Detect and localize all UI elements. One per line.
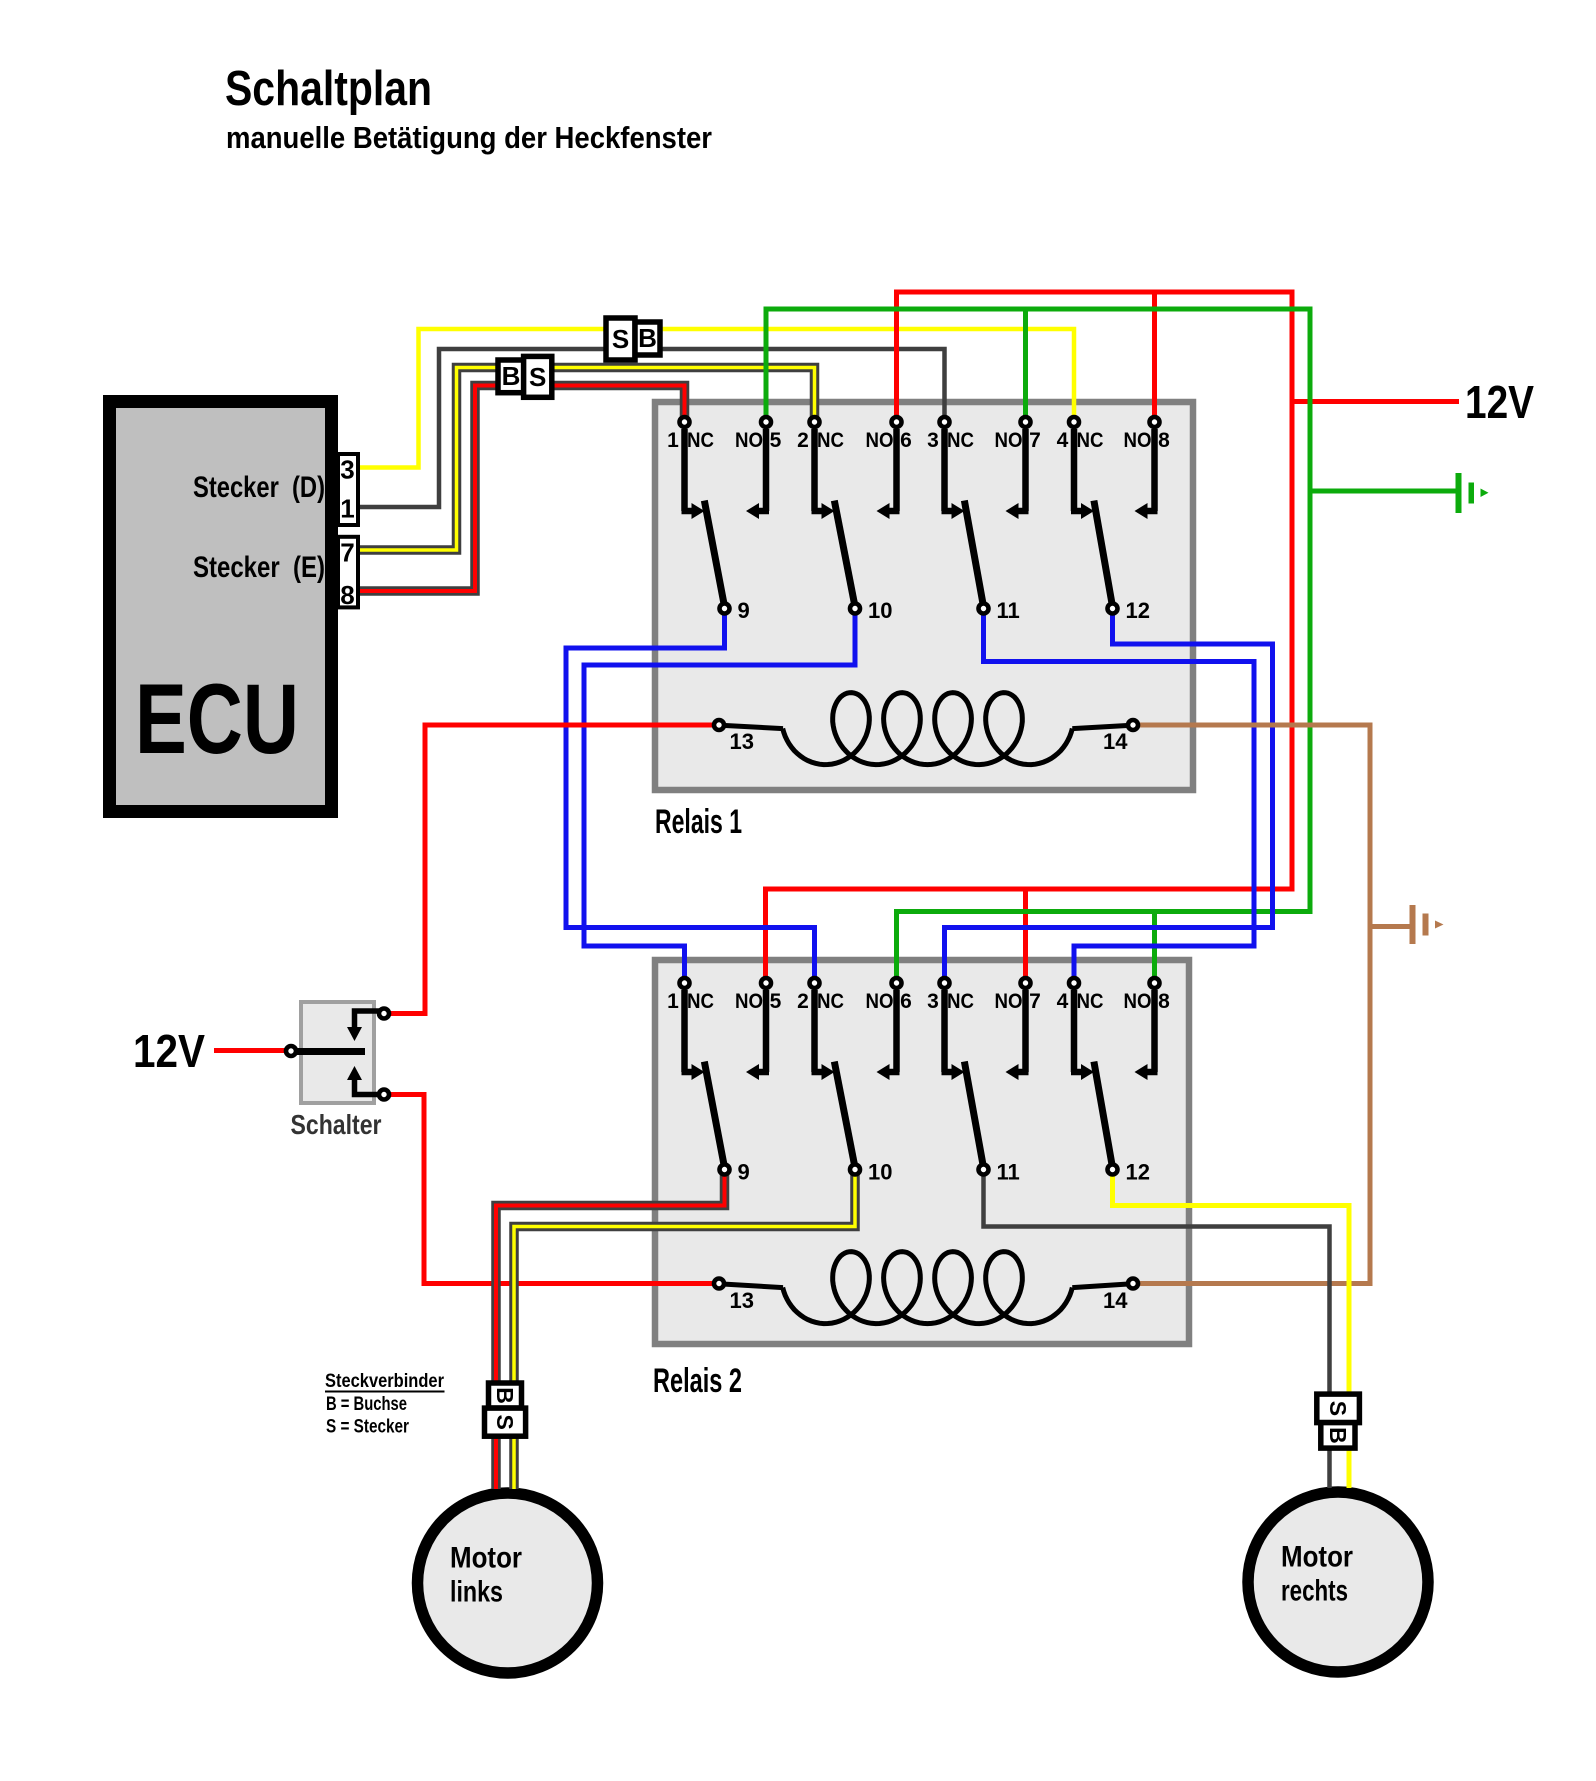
connector B (on ECU pin7/8 wires)	[498, 360, 525, 393]
wire green stub to ground	[1310, 489, 1456, 494]
node K2 pin 1	[680, 978, 690, 988]
relay K2 contact pole 1: NO throw	[763, 990, 770, 1072]
ECU connector E pins 7/8	[338, 537, 358, 608]
svg-text:B = Buchse: B = Buchse	[326, 1394, 407, 1415]
relay K2 contact pole 3: NC throw	[941, 990, 948, 1072]
svg-text:Schaltplan: Schaltplan	[225, 62, 432, 116]
svg-text:NO: NO	[995, 990, 1023, 1013]
motor M2 (rechts) body	[1248, 1492, 1428, 1672]
svg-text:8: 8	[1158, 990, 1170, 1013]
svg-text:1: 1	[667, 990, 679, 1013]
svg-text:manuelle Betätigung der Heckfe: manuelle Betätigung der Heckfenster	[226, 120, 712, 155]
node switch common pin	[286, 1046, 296, 1056]
wire green drop K2 NO8	[1152, 912, 1157, 984]
svg-text:9: 9	[738, 598, 750, 623]
node K2 pin 11	[979, 1165, 989, 1175]
svg-text:NC: NC	[947, 429, 974, 452]
svg-text:9: 9	[738, 1160, 750, 1185]
node K2 pin 13	[714, 1279, 724, 1289]
svg-text:NC: NC	[947, 990, 974, 1013]
svg-text:3: 3	[927, 429, 939, 452]
svg-text:NO: NO	[866, 990, 894, 1013]
svg-text:Schalter: Schalter	[291, 1109, 382, 1140]
relay K2 armature pole 4	[1095, 1065, 1113, 1168]
svg-text:13: 13	[730, 729, 754, 754]
svg-text:NO: NO	[1124, 990, 1152, 1013]
svg-text:ECU: ECU	[135, 663, 299, 774]
node K2 pin 7 (NO)	[1021, 978, 1031, 988]
wire red drop K1 NO8	[1152, 292, 1157, 422]
wire red switch top to K1 pin13	[389, 725, 716, 1014]
wire gray ECU pin1 to K1 pin3	[358, 349, 945, 507]
wire blue K1 pin11 to K2 pin4	[984, 609, 1255, 984]
node K1 pin 1	[680, 417, 690, 427]
svg-text:12: 12	[1126, 1160, 1150, 1185]
relay K2 coil L2	[714, 1284, 783, 1288]
svg-text:6: 6	[900, 990, 912, 1013]
node K2 pin 6 (NO)	[892, 978, 902, 988]
svg-text:NC: NC	[1077, 990, 1104, 1013]
ECU U1	[110, 402, 332, 812]
svg-text:10: 10	[868, 1160, 892, 1185]
ground (green, chassis)	[1456, 473, 1462, 513]
svg-text:links: links	[450, 1576, 503, 1609]
relay K1 armature pole 1	[705, 504, 725, 607]
relay K1 armature pole 4	[1095, 504, 1113, 607]
node K1 pin 2	[810, 417, 820, 427]
wire green ground bus	[766, 309, 1310, 983]
svg-text:B: B	[638, 323, 657, 353]
svg-text:NC: NC	[1077, 429, 1104, 452]
svg-text:S: S	[612, 324, 629, 354]
relay K2 contact pole 4: NO throw	[1151, 990, 1158, 1072]
wire red stub to 12V label	[1292, 399, 1459, 404]
relay K2 armature pole 1	[705, 1065, 725, 1168]
relay K1 contact pole 3: NC throw	[941, 429, 948, 511]
svg-text:B: B	[1325, 1427, 1351, 1444]
svg-text:S: S	[492, 1415, 518, 1430]
svg-text:13: 13	[730, 1288, 754, 1313]
svg-text:2: 2	[797, 990, 809, 1013]
node switch upper pin	[379, 1009, 389, 1019]
connector B (motor links wires)	[489, 1383, 522, 1408]
connector S (motor rechts wires)	[1317, 1394, 1360, 1423]
node K1 pin 5 (NO)	[761, 417, 771, 427]
node K2 pin 14	[1128, 1279, 1138, 1289]
svg-text:NO: NO	[735, 990, 763, 1013]
wire green drop K1 NO7	[1023, 309, 1028, 422]
ECU connector D pins 3/1	[338, 454, 358, 525]
relay K1 contact pole 3: NO throw	[1022, 429, 1029, 511]
relay K2 contact pole 4: NC throw	[1071, 990, 1078, 1072]
wire red switch bottom to K2 pin13	[389, 1095, 714, 1284]
switch S1 upper throw arrow	[355, 1011, 382, 1028]
relay K1 body	[655, 402, 1193, 790]
svg-text:S = Stecker: S = Stecker	[326, 1417, 409, 1438]
node K1 pin 3	[940, 417, 950, 427]
svg-text:Relais 1: Relais 1	[655, 803, 742, 841]
switch S1 common bar	[294, 1048, 365, 1055]
switch S1 lower throw arrow	[355, 1079, 382, 1095]
wire red 12V to switch	[214, 1048, 288, 1053]
svg-text:11: 11	[997, 598, 1020, 623]
node K1 pin 12	[1108, 604, 1118, 614]
node K2 pin 3	[940, 978, 950, 988]
node K2 pin 12	[1108, 1165, 1118, 1175]
node K1 pin 10	[850, 604, 860, 614]
relay K1 contact pole 4: NC throw	[1071, 429, 1078, 511]
svg-text:Steckverbinder: Steckverbinder	[325, 1371, 445, 1392]
svg-text:5: 5	[770, 429, 782, 452]
wire gray K2 pin11 to motor M2	[984, 1170, 1330, 1489]
node K2 pin 9	[720, 1165, 730, 1175]
connector B (on gray wire, upper)	[635, 322, 660, 355]
svg-text:8: 8	[340, 580, 354, 610]
wire dark-red K2 pin9 to motor M1	[496, 1170, 725, 1490]
node K1 pin 8 (NO)	[1150, 417, 1160, 427]
relay K1 contact pole 2: NC throw	[811, 429, 818, 511]
svg-text:S: S	[529, 362, 546, 392]
svg-text:NO: NO	[995, 429, 1023, 452]
svg-text:12: 12	[1126, 598, 1150, 623]
relay K2 armature pole 3	[965, 1065, 984, 1168]
wire dark-red ECU pin8 to K1 pin1	[358, 386, 685, 592]
ground (brown, chassis)	[1410, 905, 1416, 944]
relay K1 contact pole 4: NO throw	[1151, 429, 1158, 511]
svg-text:S: S	[1325, 1401, 1351, 1416]
wire dark-yellow ECU pin7 to K1 pin2	[358, 368, 815, 551]
svg-text:12V: 12V	[133, 1025, 205, 1077]
svg-text:6: 6	[900, 429, 912, 452]
svg-text:Relais 2: Relais 2	[653, 1362, 742, 1400]
connector B (motor rechts wires)	[1321, 1423, 1355, 1449]
wire blue K1 pin10 to K2 pin1	[584, 609, 855, 984]
connector S (on ECU pin7/8 wires)	[524, 356, 552, 397]
svg-text:7: 7	[340, 538, 354, 568]
wire brown K1 pin14 to K2 pin14	[1136, 725, 1370, 1284]
svg-text:8: 8	[1158, 429, 1170, 452]
svg-text:12V: 12V	[1465, 376, 1534, 428]
relay K2 contact pole 3: NO throw	[1022, 990, 1029, 1072]
svg-text:10: 10	[868, 598, 892, 623]
connector S (motor links wires)	[485, 1408, 526, 1436]
node K2 pin 2	[810, 978, 820, 988]
node K2 pin 8 (NO)	[1150, 978, 1160, 988]
svg-text:Motor: Motor	[1281, 1541, 1353, 1574]
motor M1 (links) body	[418, 1493, 598, 1673]
node K1 pin 13	[714, 720, 724, 730]
wire yellow ECU pin3 to K1 pin4	[358, 329, 1074, 468]
relay K1 armature pole 3	[965, 504, 984, 607]
wire red drop K2 NO7	[1023, 889, 1028, 983]
svg-text:B: B	[492, 1387, 518, 1404]
svg-text:14: 14	[1103, 1288, 1128, 1313]
svg-text:3: 3	[340, 455, 354, 485]
svg-text:Stecker (D): Stecker (D)	[193, 471, 325, 504]
node K2 pin 4	[1069, 978, 1079, 988]
svg-text:1: 1	[667, 429, 679, 452]
svg-text:14: 14	[1103, 729, 1128, 754]
node K1 pin 11	[979, 604, 989, 614]
relay K2 armature pole 2	[835, 1065, 855, 1168]
svg-text:1: 1	[340, 494, 354, 524]
relay K1 armature pole 2	[835, 504, 855, 607]
svg-text:7: 7	[1029, 429, 1041, 452]
relay K1 contact pole 2: NO throw	[893, 429, 900, 511]
svg-text:11: 11	[997, 1160, 1020, 1185]
wire yellow K2 pin12 to motor M2	[1113, 1170, 1350, 1489]
svg-text:5: 5	[770, 990, 782, 1013]
switch S1 body	[301, 1002, 374, 1103]
svg-text:NO: NO	[1124, 429, 1152, 452]
svg-text:2: 2	[797, 429, 809, 452]
svg-text:NC: NC	[817, 990, 844, 1013]
relay K1 contact pole 1: NO throw	[763, 429, 770, 511]
svg-text:4: 4	[1057, 990, 1069, 1013]
node K1 pin 14	[1128, 720, 1138, 730]
relay K1 contact pole 1: NC throw	[681, 429, 688, 511]
svg-text:NO: NO	[735, 429, 763, 452]
svg-text:NO: NO	[866, 429, 894, 452]
node switch lower pin	[379, 1090, 389, 1100]
node K1 pin 9	[720, 604, 730, 614]
svg-text:NC: NC	[817, 429, 844, 452]
svg-text:B: B	[502, 361, 521, 391]
node K1 pin 7 (NO)	[1021, 417, 1031, 427]
svg-text:NC: NC	[687, 990, 714, 1013]
svg-text:7: 7	[1029, 990, 1041, 1013]
wire blue K1 pin12 to K2 pin3	[945, 609, 1273, 984]
svg-text:rechts: rechts	[1281, 1575, 1348, 1608]
wire blue K1 pin9 to K2 pin2	[566, 609, 815, 984]
relay K1 coil L1	[716, 725, 783, 729]
svg-text:Stecker (E): Stecker (E)	[193, 551, 325, 584]
node K2 pin 5 (NO)	[761, 978, 771, 988]
connector S (on gray wire, upper)	[606, 318, 635, 360]
wire brown stub to ground	[1370, 924, 1410, 929]
relay K2 contact pole 2: NC throw	[811, 990, 818, 1072]
node K1 pin 4	[1069, 417, 1079, 427]
relay K2 body	[655, 960, 1189, 1344]
wire red 12V bus	[766, 292, 1293, 983]
svg-text:3: 3	[927, 990, 939, 1013]
node K2 pin 10	[850, 1165, 860, 1175]
relay K2 contact pole 2: NO throw	[893, 990, 900, 1072]
svg-text:Motor: Motor	[450, 1542, 522, 1575]
wire dark-yellow K2 pin10 to motor M1	[514, 1170, 855, 1490]
svg-text:NC: NC	[687, 429, 714, 452]
relay K2 contact pole 1: NC throw	[681, 990, 688, 1072]
node K1 pin 6 (NO)	[892, 417, 902, 427]
svg-text:4: 4	[1057, 429, 1069, 452]
